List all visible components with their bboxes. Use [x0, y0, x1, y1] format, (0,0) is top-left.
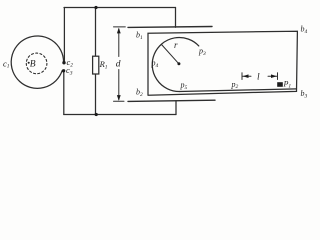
flux dot [28, 62, 30, 64]
wire top [64, 7, 176, 9]
dimension l right arrow [268, 73, 278, 80]
wire bottom [64, 114, 176, 116]
wire resistor branch lower [95, 74, 97, 115]
screen inner line (particle path along bottom) [180, 89, 297, 92]
coil circle (generator loop) [11, 36, 63, 88]
dimension d arrow line upper [118, 29, 120, 57]
dimension l left arrowhead [243, 74, 249, 78]
capacitor top plate b1 [128, 26, 212, 29]
wire right top branch [175, 8, 177, 28]
screen box b1-b4-b3-b2 [148, 31, 297, 95]
junction dot top [94, 6, 97, 9]
wire left upper [63, 8, 65, 62]
target square P1 [277, 82, 283, 87]
wire left lower [63, 71, 65, 114]
node c3 dot [62, 69, 65, 72]
svg-text:l: l [257, 73, 260, 83]
svg-text:d: d [116, 60, 121, 70]
trajectory center dot [177, 62, 180, 65]
radius r line [162, 45, 180, 65]
wire resistor branch upper [95, 8, 97, 57]
dimension l left arrow [242, 73, 251, 80]
dimension d lower arrowhead [117, 95, 121, 101]
dimension d upper arrowhead [117, 28, 121, 34]
resistor R1 body [93, 56, 99, 74]
junction dot bottom [95, 113, 98, 116]
wire right bottom branch [175, 101, 177, 115]
node c2 dot [62, 61, 65, 64]
dimension d bottom tick [114, 100, 125, 102]
dashed flux region [26, 53, 47, 74]
svg-text:B: B [30, 59, 36, 69]
trajectory circle [152, 38, 199, 92]
dimension d arrow line lower [118, 70, 120, 100]
svg-text:r: r [174, 40, 178, 50]
capacitor bottom plate b2 [128, 100, 215, 101]
dimension d top tick [114, 26, 126, 28]
dimension l right arrowhead [271, 74, 277, 78]
